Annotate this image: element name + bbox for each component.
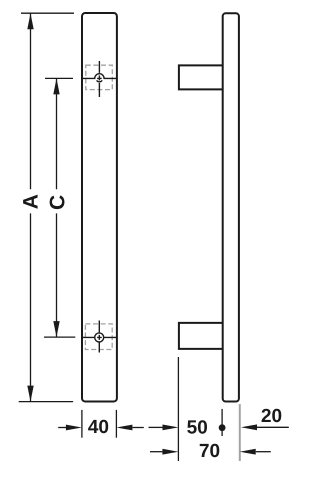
dimension 40 right arrow	[132, 427, 143, 429]
lower fixing dashed square	[85, 324, 112, 350]
lower fixing vertical centerline	[98, 321, 100, 353]
dimension A top extension line	[21, 12, 74, 14]
upper fixing hole bottom arc	[97, 80, 103, 81]
dimension C line	[56, 78, 58, 337]
dimension C top arrow	[53, 78, 59, 94]
dimension A top arrow	[27, 13, 33, 29]
upper fixing thread arc (upper semicircle)	[95, 74, 104, 79]
label 40	[88, 420, 108, 433]
dimension 40 right extension line	[115, 410, 117, 438]
dimension 50 arrow	[149, 426, 163, 428]
upper fixing horizontal centerline	[82, 77, 117, 79]
dimension C upper tick	[45, 77, 73, 79]
dimension A line	[30, 13, 32, 401]
lower fixing hole circle	[95, 333, 104, 342]
label C	[50, 195, 65, 209]
lower standoff side view	[179, 323, 223, 349]
dimension dot at 50/20 boundary	[219, 424, 226, 431]
handle bar side view	[223, 13, 239, 401]
dimension A bottom arrow	[27, 386, 33, 402]
label 20	[262, 409, 282, 422]
label 50	[187, 420, 207, 433]
dimension A bottom extension line	[19, 401, 73, 403]
dimension 70 right arrow	[256, 451, 271, 453]
upper fixing dashed square	[86, 65, 113, 89]
dimension 40 left extension line	[81, 410, 83, 438]
bar back face extension line (gray)	[239, 404, 241, 461]
upper standoff side view	[179, 65, 223, 89]
door face extension line	[177, 357, 179, 461]
label 70	[200, 444, 220, 457]
handle bar front view	[82, 13, 117, 402]
dimension 20 arrow	[257, 426, 289, 428]
dimension C lower tick	[44, 336, 75, 338]
bar front face extension line with dot	[221, 409, 223, 436]
dimension C bottom arrow	[53, 321, 59, 337]
dimension 40 left arrow	[58, 427, 66, 429]
lower fixing horizontal centerline	[82, 336, 117, 338]
label A	[23, 195, 37, 209]
upper fixing vertical centerline	[98, 61, 100, 97]
dimension 70 left arrow	[150, 451, 162, 453]
